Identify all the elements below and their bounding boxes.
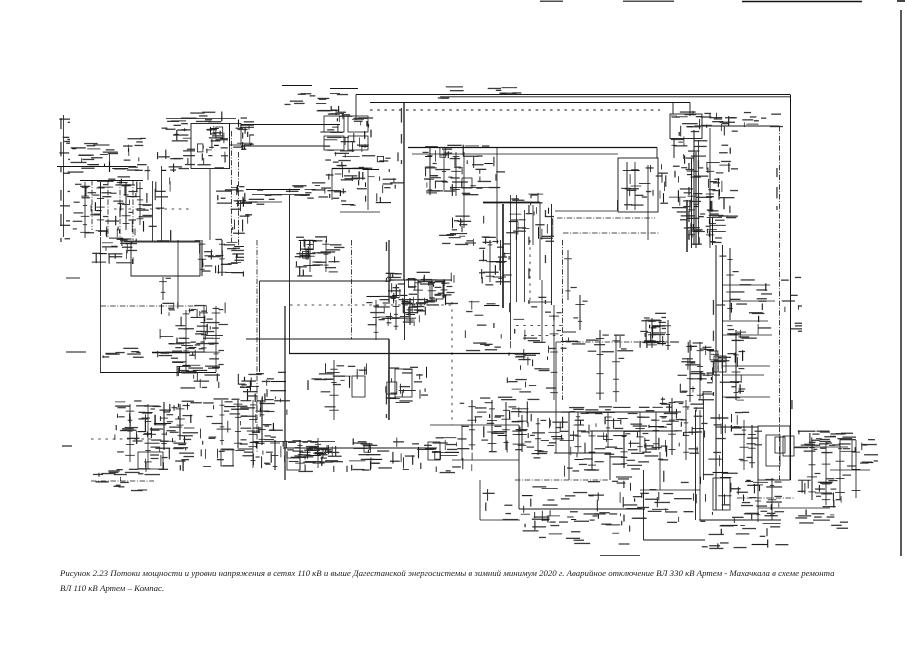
feeder chain 253 (241, 400, 264, 468)
wire mid horizontal 147 drop (656, 148, 658, 159)
wire mid dashdot horizontal (101, 305, 197, 307)
substation box AF (430, 282, 443, 299)
wire top frame return (370, 102, 690, 104)
wire bundle vertical 698 (698, 140, 700, 245)
substation cluster ladder labels (158, 123, 195, 172)
substation cluster AP (403, 437, 472, 473)
wire top frame bus 330kV (356, 94, 790, 96)
wire gray bus 354 (152, 352, 190, 354)
feeder chain 275 (264, 439, 280, 470)
substation cluster Y (640, 313, 666, 348)
wire vert 148 chir (147, 166, 149, 180)
wire top left riser (355, 95, 357, 121)
feeder chain 186 (173, 310, 197, 370)
substation box right ladder inner b (783, 436, 794, 456)
feeder chain 418v (406, 279, 423, 302)
feeder chain 690i (678, 340, 703, 402)
substation cluster right low labels (700, 521, 788, 549)
wire hor 372 (101, 372, 217, 374)
feeder chain 506 (494, 402, 516, 450)
feeder chain 216 (212, 306, 228, 372)
wire left dashdot vertical (256, 240, 258, 452)
substation cluster AG (386, 367, 428, 403)
substation cluster AB labels (158, 342, 220, 362)
feeder chain 616m (612, 335, 624, 402)
wire left vertical 63 (63, 115, 65, 237)
wire bottom rail 520 (699, 519, 781, 521)
wire mid horizontal 154 (412, 153, 618, 155)
feeder chain 222c (209, 400, 233, 445)
wire vertical 389 upper (388, 240, 390, 302)
substation cluster labels above ladder (167, 112, 222, 123)
substation cluster K artem box (671, 111, 735, 147)
label rotated 404 (401, 108, 402, 164)
wire hor 425 low (430, 424, 519, 426)
wire vert 524 chain (524, 210, 526, 302)
feeder chain 826 (813, 442, 837, 505)
wire top edge artifact b (623, 0, 674, 2)
wire center vertical 556 (555, 342, 557, 453)
wire bus 195 (252, 194, 310, 196)
feeder chain 164c (153, 402, 176, 450)
wire hor 233 dd (563, 232, 659, 234)
wire hor 118 lab (166, 118, 236, 120)
substation cluster AQ (475, 397, 531, 453)
wire vert 231 hang (231, 131, 233, 242)
wire hor 218 dd (557, 217, 655, 219)
substation box grid a (324, 116, 344, 132)
substation box AO (428, 442, 440, 460)
label rotated chain 689 (688, 163, 689, 239)
wire mahachkala trunk (389, 279, 452, 281)
substation box miatli (618, 158, 658, 212)
wire hor 460 mid (452, 459, 519, 461)
wire vert 108 drop (107, 180, 109, 238)
wire left long vertical (100, 237, 102, 373)
feeder chain 691b (681, 158, 699, 248)
feeder chain 100t (93, 182, 108, 236)
wire heavy vertical 389 (388, 339, 390, 420)
wire vert 120 drop (119, 180, 121, 240)
wire bottom dashdot 498 (737, 497, 795, 499)
feeder chain 608 (595, 412, 613, 448)
feeder chain 376 (366, 300, 379, 340)
feeder chain 538 (527, 418, 547, 455)
wire heavy bus kizilyurt (483, 202, 540, 204)
substation cluster AA (160, 302, 225, 345)
wire stair horizontal 540 (644, 539, 706, 541)
feeder chain 656 (644, 412, 667, 450)
substation big rect RGU (131, 242, 200, 276)
feeder chain 148c (142, 404, 160, 468)
wire hor 302 (528, 301, 552, 303)
substation cluster P topright labels (701, 112, 783, 132)
substation cluster AL (145, 438, 195, 475)
caption (60, 566, 860, 595)
wire bottom dashdot left (91, 480, 154, 482)
substation cluster AN (291, 442, 343, 472)
wire bottom drop 610 (609, 453, 611, 480)
feeder chain 686 (676, 400, 699, 460)
substation cluster top small left (231, 185, 252, 234)
substation box AU (775, 437, 785, 453)
feeder chain 730 (717, 248, 739, 320)
wire tick 278 (66, 277, 80, 279)
wire top edge artifact c (742, 1, 862, 3)
wire vert 516 chain (516, 195, 518, 302)
substation box right low (713, 478, 730, 510)
wire stair horizontal 509 (519, 508, 645, 510)
substation box ladder right col (230, 124, 242, 146)
substation cluster AI (680, 342, 714, 404)
wire diag bus 168 (331, 169, 333, 201)
substation cluster AB left text (103, 348, 144, 358)
substation cluster G mid gap (439, 216, 484, 247)
substation cluster AVlab (801, 433, 853, 446)
feeder chain 578 (574, 412, 589, 452)
substation cluster AH bundle (507, 297, 556, 400)
substation cluster r frame labels (781, 277, 802, 332)
feeder chain 430 (423, 148, 438, 195)
substation cluster BA (285, 441, 340, 463)
feeder chain 432v (421, 279, 442, 300)
wire gray vert 285 (284, 306, 286, 480)
substation cluster AC (177, 365, 220, 388)
substation cluster AS (605, 417, 664, 454)
feeder chain 444v (431, 279, 455, 298)
wire backbone vertical B (722, 245, 724, 510)
wire rect R bottom (131, 275, 200, 277)
substation cluster box grid top (320, 110, 373, 152)
substation box grid b (348, 116, 368, 132)
wire top edge artifact d (897, 0, 905, 2)
feeder chain 840 (829, 438, 851, 500)
wire vert 551 chain (551, 204, 553, 305)
feeder chain 334 (321, 360, 344, 420)
wire bottom dashdot 480 (515, 479, 608, 481)
label rotated 713 (713, 300, 714, 396)
substation box grid d (348, 136, 368, 150)
wire vert 533 chain (532, 205, 534, 245)
feeder chain 772z (768, 478, 784, 520)
label rotated chain 698b (698, 160, 699, 234)
wire backbone vertical A (715, 245, 717, 510)
wire hor 187 mid (452, 187, 500, 189)
substation cluster bottom 540 (523, 512, 630, 544)
substation box AG2 (395, 369, 412, 397)
feeder chain 490x (479, 240, 499, 282)
substation cluster T (295, 236, 345, 277)
feeder chain 672 (660, 398, 682, 455)
wire vert 540 mid upper (539, 202, 541, 280)
wire mid dash horizontal b (290, 304, 452, 306)
feeder chain 85 (73, 182, 96, 238)
wire vert 510 chain (510, 195, 512, 340)
substation cluster E (233, 117, 254, 150)
wire vert 530 mid (529, 240, 531, 302)
wire dashdot 209 (114, 208, 190, 210)
substation cluster AY (620, 477, 700, 523)
feeder chain 168 (159, 277, 171, 300)
wire vert 480 bottom (479, 480, 481, 520)
substation box izberbash (221, 449, 233, 466)
wire center dashdot vertical (562, 240, 564, 400)
wire vert 92 drop (91, 180, 93, 230)
substation box bottom mid (352, 376, 365, 397)
wire hor 441 (253, 441, 335, 443)
wire vert 569 low (568, 455, 570, 480)
wire bus 189 (246, 189, 300, 191)
substation cluster samur (795, 478, 848, 529)
substation cluster AZ bottom right (706, 478, 783, 526)
feeder chain 580c (573, 295, 587, 330)
substation cluster AD (238, 372, 286, 402)
wire rung 366 (722, 365, 770, 367)
wire hor 211 (555, 210, 617, 212)
substation cluster AR (532, 412, 604, 459)
wire bottom left vertical 700 (699, 410, 701, 520)
wire hor 446 tick (62, 445, 72, 447)
substation cluster AV right labels (860, 439, 878, 464)
wire heavy mid bus (289, 353, 540, 355)
feeder chain 492 (481, 400, 501, 452)
wire right frame vertical (790, 95, 792, 481)
feeder chain 300 (293, 440, 308, 470)
feeder chain 640 (628, 412, 649, 452)
feeder chain 522 (512, 415, 531, 452)
wire dashed vertical 452 (451, 302, 453, 425)
substation cluster AF (308, 363, 367, 390)
wire stair vertical 643 (643, 470, 645, 540)
wire top edge artifact a (540, 0, 563, 2)
wire vert 404 low (404, 280, 406, 340)
wire hor 241 left (120, 240, 200, 242)
substation cluster midlabels 342 (561, 332, 665, 352)
wire miatli v2 (634, 162, 636, 210)
feeder chain 758z (745, 478, 767, 522)
substation cluster L below box (669, 146, 714, 219)
substation cluster left bus taps (80, 176, 171, 241)
wire bottom branch 569 (568, 412, 570, 455)
substation cluster 412 labels (561, 404, 670, 414)
substation box ladder Chiryurt (191, 124, 230, 169)
wire vert 178 stub (177, 240, 179, 306)
substation box mamedkala (287, 458, 300, 470)
wire mid horizontal 147 (408, 147, 657, 149)
substation cluster W right of K (707, 145, 738, 219)
wire hor 520 bottom (480, 519, 520, 521)
feeder chain 568c (564, 250, 577, 300)
wire bottom horizontal 453 (554, 452, 611, 454)
wire miatli v1 (626, 162, 628, 210)
substation cluster O (680, 215, 728, 245)
substation cluster M (621, 164, 668, 205)
wire rung 335 (722, 334, 772, 336)
substation box 330kV Artem (670, 114, 702, 139)
substation cluster J miatli (424, 145, 480, 196)
substation cluster left rot text (59, 119, 70, 240)
wire bottom bus 412 (569, 411, 681, 413)
wire hor 335 lbun (524, 335, 562, 337)
feeder chain 204 (191, 306, 213, 352)
wire vert 462 low (461, 425, 463, 460)
wire bottom edge 555 (600, 555, 640, 557)
substation box J (462, 178, 472, 188)
feeder chain 668m (659, 320, 679, 350)
wire gray vert 503 (502, 204, 504, 308)
wire vert 617 stub (617, 200, 619, 211)
substation cluster text mid row (216, 186, 282, 205)
wire bottom horizontal 447b (795, 446, 848, 448)
wire bottom horizontal 508 (758, 507, 830, 509)
wire hor 470 right (830, 469, 870, 471)
wire hor 205 stub (246, 201, 282, 203)
wire horizontal 280 (260, 280, 390, 282)
feeder chain 856 (843, 440, 861, 498)
wire vert 542 mid (541, 280, 543, 342)
wire hor 412 left ext (519, 411, 569, 413)
wire bundle vertical 694 (693, 130, 695, 245)
substation cluster topmid labels (438, 87, 522, 99)
substation cluster AV derbent (794, 430, 857, 453)
wire bottom horizontal 447a (283, 447, 437, 449)
wire vert 161 chir (161, 166, 163, 241)
feeder chain 396 (383, 300, 400, 330)
wire bundle vertical 710 (709, 128, 711, 245)
substation cluster V mahachkala bus (385, 272, 458, 305)
substation box grid c (324, 136, 344, 150)
wire bottom left vertical 695 (695, 410, 697, 520)
feeder chain 500x (496, 240, 512, 285)
wire vert 852 stub (851, 440, 853, 470)
substation cluster N left bundle (506, 193, 554, 242)
wire horizontal 339 (246, 338, 389, 340)
wire deep vert 660 (659, 452, 661, 490)
wire rung 321 (722, 320, 768, 322)
wire right dashdot vertical (779, 126, 781, 480)
substation cluster gelbakh labels (470, 145, 505, 188)
substation cluster AO (347, 438, 404, 472)
wire left bus 180 (80, 180, 143, 182)
feeder chain 472 (460, 400, 483, 450)
wire box to right frame (702, 125, 780, 127)
feeder chain 130c (117, 404, 142, 462)
substation box kaspiysk (138, 452, 163, 469)
wire hor 212 small (340, 211, 380, 213)
feeder chain 554c (541, 305, 562, 400)
label rotated 387b (386, 393, 387, 418)
feeder chain 710b (699, 165, 719, 248)
substation cluster AE (367, 296, 429, 326)
wire upper bus 146 (241, 145, 330, 147)
wire vert 497 chain (496, 148, 498, 240)
substation box right ladder (758, 426, 790, 480)
label rotated VL330 right (776, 168, 777, 210)
substation box AJ (714, 356, 726, 372)
wire top frame bus second (440, 96, 790, 98)
substation cluster X right col (479, 236, 510, 285)
substation cluster upper-left labels (68, 138, 158, 173)
feeder chain 652m (640, 317, 664, 348)
wire deep hor 490 (640, 489, 700, 491)
wire vert 464 mid (463, 152, 465, 228)
feeder chain 126 (113, 182, 137, 230)
wire vert 648 chain (647, 165, 649, 240)
feeder chain 712t (706, 218, 725, 245)
wire vert 210 drop (209, 169, 211, 240)
wire hor y168 bus (332, 168, 368, 170)
substation cluster S (200, 239, 244, 277)
feeder chain 444 (431, 150, 448, 190)
feeder chain 600m (588, 330, 609, 400)
wire rung 375 (722, 374, 764, 376)
wire hor 325 lbun (516, 325, 562, 327)
feeder chain 262 (258, 398, 274, 445)
wire vertical 351 dashdot (351, 240, 353, 339)
feeder chain 700i (691, 342, 713, 400)
wire vert 152 drop (152, 181, 154, 241)
wire rung 397 (722, 396, 770, 398)
wire vert 289 long (289, 195, 291, 353)
wire dashed hor 439 (91, 438, 154, 440)
feeder chain 222t (215, 240, 226, 276)
label rotated 529 (528, 205, 529, 304)
substation cluster labels above (285, 93, 349, 112)
wire top stub 88 (330, 88, 358, 90)
feeder chain 736 (732, 330, 750, 400)
feeder chain 624 (615, 431, 635, 468)
wire vertical 673 drop (672, 103, 674, 115)
substation cluster AW labels (565, 453, 664, 483)
label rotated 545 (545, 210, 546, 304)
wire heavy center riser (403, 102, 405, 280)
wire gray vert 687 (686, 200, 688, 252)
substation cluster AU ladder zone (701, 412, 758, 475)
substation box right ladder inner a (766, 435, 780, 466)
feeder chain 812 (804, 440, 820, 500)
wire vertical 703 (703, 400, 705, 480)
substation cluster text row I (286, 182, 331, 199)
wire rung 301 (722, 300, 775, 302)
substation cluster bus taps H (325, 152, 404, 205)
feeder chain 674s (671, 139, 676, 159)
wire upper bus 124 (241, 124, 340, 126)
label rotated 387 (386, 242, 387, 282)
substation cluster AK (115, 400, 202, 444)
substation box Y1 (646, 320, 660, 342)
wire vert 238 hang (238, 152, 240, 242)
substation cluster Q (92, 238, 137, 264)
substation cluster ladder interior (197, 126, 228, 169)
feeder chain 310t (305, 240, 321, 272)
feeder chain 410 (399, 298, 421, 325)
wire top frame drop (689, 103, 691, 117)
wire hor 427 right (716, 426, 758, 428)
substation cluster center sparse (465, 301, 501, 351)
feeder chain 140 (127, 182, 152, 225)
wire vert 133 drop (132, 180, 134, 240)
feeder chain 744 (734, 420, 756, 470)
label rotated 792 (791, 400, 792, 409)
wire vert 368 bus (367, 169, 369, 211)
substation cluster AL2 labels (93, 468, 150, 491)
feeder chain 326t (313, 240, 340, 272)
feeder chain 456 (445, 152, 464, 196)
wire stair vertical 519 (518, 425, 520, 509)
wire tick 352 (66, 351, 86, 353)
wire top stub 85 (282, 85, 312, 87)
feeder chain 752 (739, 425, 762, 468)
